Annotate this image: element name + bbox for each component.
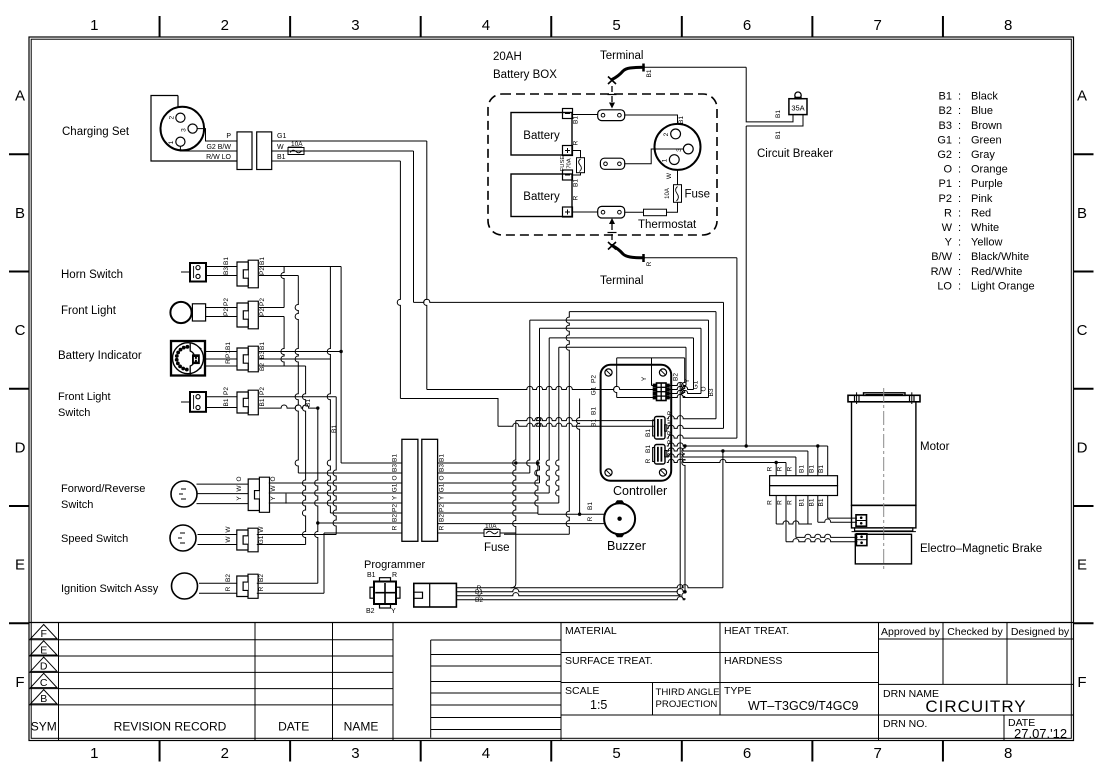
svg-text::: :: [958, 280, 961, 292]
svg-text:A: A: [15, 88, 25, 105]
svg-text:B1: B1: [259, 257, 266, 265]
svg-text:Terminal: Terminal: [600, 50, 643, 62]
svg-text:C: C: [40, 677, 48, 689]
svg-text:B3: B3: [439, 464, 446, 472]
terminal block 2: [600, 158, 624, 169]
svg-text:Battery: Battery: [523, 191, 560, 203]
svg-text::: :: [958, 164, 961, 176]
svg-text:F: F: [40, 628, 46, 640]
svg-text:Battery Indicator: Battery Indicator: [58, 350, 142, 362]
svg-text:10A: 10A: [665, 188, 671, 199]
svg-text:B1: B1: [573, 116, 580, 124]
svg-text:C: C: [1077, 322, 1088, 339]
front light switch connector pair: [248, 390, 258, 415]
svg-text:NAME: NAME: [344, 720, 379, 734]
svg-text:B: B: [15, 205, 25, 222]
svg-text:Checked by: Checked by: [947, 626, 1003, 638]
svg-text:P2: P2: [223, 308, 230, 316]
svg-text:3: 3: [181, 128, 188, 132]
svg-text:R/W: R/W: [931, 266, 953, 278]
svg-text:B1: B1: [667, 449, 674, 457]
svg-text:5: 5: [612, 17, 620, 34]
motor connector: [856, 515, 867, 526]
controller B1 lower wire from charger B1: [400, 399, 498, 427]
svg-text:Battery BOX: Battery BOX: [493, 69, 557, 81]
main connector half A: [402, 439, 418, 541]
svg-text:E: E: [40, 644, 47, 656]
svg-text::: :: [958, 266, 961, 278]
controller bottom connector: [655, 445, 666, 465]
svg-text:P2: P2: [439, 504, 446, 512]
wire plug bottom to fuse 10A: [677, 170, 679, 185]
svg-text:B1: B1: [259, 342, 266, 350]
svg-text:Battery: Battery: [523, 130, 560, 142]
svg-text:P2: P2: [259, 298, 266, 306]
wire block2 to plug pin3: [625, 149, 684, 164]
svg-text:Fuse: Fuse: [685, 189, 711, 201]
svg-text:3: 3: [351, 17, 359, 34]
svg-text:R: R: [777, 466, 784, 471]
svg-text:FUSE: FUSE: [560, 156, 566, 172]
horn P2 wire right: [259, 275, 298, 277]
svg-text:TYPE: TYPE: [724, 685, 751, 697]
battery plug pin 3: [683, 144, 693, 154]
svg-text:Yellow: Yellow: [971, 237, 1002, 249]
right bus verticals down to controller: [685, 347, 687, 385]
controller top connector: [657, 383, 667, 401]
wire B1 from charger: [272, 160, 401, 162]
svg-text:Y: Y: [236, 496, 243, 501]
svg-text:Orange: Orange: [971, 164, 1008, 176]
controller bottom wires to motor strip: [667, 443, 828, 446]
svg-text:R: R: [225, 359, 232, 364]
svg-text:P1: P1: [939, 178, 952, 190]
mid bus H3: [530, 319, 709, 321]
drn no / date block: [879, 714, 1074, 716]
svg-text:2: 2: [221, 745, 229, 762]
svg-text:B1: B1: [591, 407, 598, 415]
svg-text:MATERIAL: MATERIAL: [565, 625, 617, 637]
svg-text::: :: [958, 134, 961, 146]
band risers to mid horizontals: [527, 320, 530, 473]
svg-text:Purple: Purple: [971, 178, 1003, 190]
svg-text:Electro–Magnetic Brake: Electro–Magnetic Brake: [920, 543, 1042, 555]
svg-text:R: R: [225, 586, 232, 591]
ignition switch body: [172, 573, 198, 599]
svg-text:B1: B1: [646, 69, 653, 77]
svg-text:Charging Set: Charging Set: [62, 126, 130, 138]
svg-text:SYM: SYM: [31, 720, 57, 734]
svg-text:PROJECTION: PROJECTION: [656, 699, 718, 710]
svg-text:B1: B1: [775, 131, 782, 139]
svg-text:R: R: [573, 140, 580, 145]
ignition R wire: [257, 592, 324, 594]
svg-text:B2: B2: [392, 514, 399, 522]
svg-text:Circuit Breaker: Circuit Breaker: [757, 148, 833, 160]
strip top stubs: [775, 463, 777, 476]
controller right mid wires R W R: [667, 416, 716, 419]
svg-text:B1: B1: [223, 257, 230, 265]
battery indicator connector pair: [248, 346, 258, 372]
svg-text:SURFACE TREAT.: SURFACE TREAT.: [565, 655, 653, 667]
svg-text:G2: G2: [937, 149, 952, 161]
svg-text:Y: Y: [439, 495, 446, 500]
svg-text:Ignition Switch Assy: Ignition Switch Assy: [61, 583, 159, 595]
material/heat treat block: [560, 623, 562, 741]
svg-text:W: W: [225, 526, 232, 533]
svg-text:Pink: Pink: [971, 193, 993, 205]
svg-text:REVISION RECORD: REVISION RECORD: [114, 720, 227, 734]
svg-text:B1: B1: [808, 498, 815, 506]
controller top connector pin nubs: [653, 384, 656, 387]
svg-text:WT–T3GC9/T4GC9: WT–T3GC9/T4GC9: [748, 699, 858, 713]
svg-text:D: D: [1077, 439, 1088, 456]
charging plug pin 2: [176, 113, 185, 122]
battery plug pin 1: [669, 155, 679, 165]
svg-text:B1: B1: [775, 110, 782, 118]
main connector half B: [422, 439, 438, 541]
charging G1 riser to controller: [424, 141, 427, 390]
svg-text:B1: B1: [939, 91, 952, 103]
svg-text:B1: B1: [277, 154, 286, 161]
svg-text:B1: B1: [367, 572, 376, 579]
svg-text:B2: B2: [673, 373, 680, 381]
wire G1 from charger: [272, 140, 427, 142]
controller B1 upper wire from fuse bus: [516, 417, 655, 420]
title block frame: [29, 622, 1074, 624]
charging plug pin 3: [188, 124, 197, 133]
svg-text:Terminal: Terminal: [600, 275, 643, 287]
svg-text::: :: [958, 178, 961, 190]
motor center line: [883, 388, 885, 570]
controller top connector right row wires: [669, 382, 686, 385]
svg-text:P: P: [226, 133, 231, 140]
forward/reverse wires: [197, 483, 249, 485]
svg-text:R: R: [667, 439, 674, 444]
B3 riser to w6: [327, 267, 330, 514]
svg-text:Blue: Blue: [971, 105, 993, 117]
front light switch body: [190, 392, 206, 412]
svg-text:HARDNESS: HARDNESS: [724, 655, 782, 667]
svg-text:B1: B1: [808, 465, 815, 473]
B2 wire over controller: [617, 357, 685, 359]
buzzer: [604, 503, 635, 534]
svg-text::: :: [958, 237, 961, 249]
svg-text:Motor: Motor: [920, 441, 950, 453]
svg-text:A: A: [1077, 88, 1087, 105]
svg-text:Black: Black: [971, 91, 998, 103]
charging W riser to H1: [413, 151, 415, 302]
battery 2 minus terminal: [563, 170, 573, 180]
svg-text:R: R: [392, 572, 397, 579]
svg-text:D: D: [40, 661, 48, 673]
charging set connector body: [151, 96, 237, 162]
svg-text:Switch: Switch: [61, 499, 93, 511]
svg-text:B1: B1: [645, 445, 652, 453]
svg-text:B3: B3: [939, 120, 952, 132]
controller mid connector: [655, 417, 666, 440]
speed W wire: [257, 534, 336, 536]
terminal block 3: [598, 206, 625, 218]
svg-text:G1: G1: [937, 134, 952, 146]
svg-text:R: R: [392, 525, 399, 530]
motor top cap: [848, 395, 920, 402]
svg-text:O: O: [270, 476, 277, 481]
svg-text:HEAT TREAT.: HEAT TREAT.: [724, 625, 789, 637]
ruler column ticks top: [159, 16, 161, 37]
charging plug pin 1: [176, 137, 185, 146]
svg-text:R: R: [573, 195, 580, 200]
svg-text:DATE: DATE: [278, 720, 309, 734]
svg-text:R: R: [767, 466, 774, 471]
svg-text:B2: B2: [439, 514, 446, 522]
controller Y wire: [651, 358, 653, 386]
battery indicator wires: [205, 351, 237, 353]
svg-text:Green: Green: [971, 134, 1002, 146]
battery indicator body: [171, 341, 205, 376]
svg-text:D: D: [15, 439, 26, 456]
speed switch body: [170, 525, 196, 551]
wire thermostat to block3: [625, 211, 644, 213]
svg-text:B1: B1: [392, 454, 399, 462]
electro-magnetic brake: [855, 534, 911, 564]
svg-text:4: 4: [482, 745, 490, 762]
R bus down to controller mid connector: [736, 258, 738, 438]
svg-text:Black/White: Black/White: [971, 251, 1029, 263]
horn switch wires to connector: [206, 266, 237, 268]
battery plug circle: [655, 124, 701, 170]
svg-text:CIRCUITRY: CIRCUITRY: [925, 697, 1026, 716]
svg-text:B1: B1: [573, 179, 580, 187]
svg-text:B1: B1: [818, 498, 825, 506]
battery 1 minus terminal: [563, 109, 573, 119]
buzzer B1 riser from controller B1 wire: [576, 399, 579, 515]
speed G1 wire: [257, 544, 306, 546]
W to Y jumper: [285, 494, 287, 504]
svg-text:B1: B1: [798, 498, 805, 506]
svg-text:Light Orange: Light Orange: [971, 280, 1035, 292]
approved/checked/designed block: [942, 623, 944, 685]
svg-text:P2: P2: [392, 504, 399, 512]
svg-text:G1: G1: [591, 386, 598, 395]
front light switch P2 wire: [259, 396, 336, 398]
ruler row ticks left: [9, 153, 29, 155]
ignition B2 wire: [257, 582, 318, 584]
main connector left wires: [341, 462, 402, 464]
front light bulb: [170, 302, 191, 323]
svg-text:B1: B1: [587, 502, 594, 510]
front light connector pair: [248, 301, 258, 329]
svg-text:70A: 70A: [567, 158, 573, 168]
battery fuse 10A: [674, 185, 682, 203]
horn B1 riser to w1: [340, 267, 342, 464]
svg-text:Front Light: Front Light: [58, 391, 111, 403]
FLS B1 riser down to ignition B2: [315, 408, 318, 583]
svg-text:6: 6: [743, 17, 751, 34]
svg-text:Front Light: Front Light: [61, 305, 117, 317]
svg-text:P2: P2: [259, 308, 266, 316]
front light wires: [206, 307, 237, 309]
svg-text:B: B: [1077, 205, 1087, 222]
ignition connector pair: [248, 574, 258, 598]
wire fuse 70A to battery2 minus: [573, 173, 581, 175]
wire fuse to thermostat: [667, 202, 678, 212]
svg-text:O: O: [236, 476, 243, 481]
svg-text:R: R: [646, 261, 653, 266]
svg-text:7: 7: [873, 745, 881, 762]
svg-text:Designed by: Designed by: [1011, 626, 1070, 638]
controller P2 row4 wire: [614, 358, 617, 398]
battery 2: [511, 174, 572, 217]
svg-text::: :: [958, 222, 961, 234]
horn switch body: [190, 263, 206, 282]
svg-text:Buzzer: Buzzer: [607, 539, 646, 553]
svg-text:THIRD ANGLE: THIRD ANGLE: [656, 687, 720, 698]
svg-text::: :: [958, 207, 961, 219]
battery 1: [511, 113, 572, 156]
svg-text:1: 1: [662, 158, 669, 162]
svg-text:P2: P2: [591, 375, 598, 383]
svg-text:R: R: [786, 500, 793, 505]
svg-text:8: 8: [1004, 745, 1012, 762]
svg-text:B2: B2: [225, 574, 232, 582]
svg-text:7: 7: [873, 17, 881, 34]
svg-text:W: W: [942, 222, 953, 234]
mid bus H1: [414, 299, 724, 302]
svg-text:R: R: [587, 516, 594, 521]
fuse 10A on W wire: [288, 148, 304, 155]
svg-text:C: C: [15, 322, 26, 339]
svg-text:Y: Y: [641, 376, 648, 381]
svg-text:G2 B/W: G2 B/W: [206, 144, 231, 151]
svg-text:20AH: 20AH: [493, 51, 522, 63]
svg-text:R: R: [667, 410, 674, 415]
svg-text:Y: Y: [270, 496, 277, 501]
svg-text:W: W: [258, 526, 265, 533]
svg-text:R/W LO: R/W LO: [206, 154, 231, 161]
svg-text::: :: [958, 105, 961, 117]
wire battery2 plus to terminal block 3: [573, 211, 598, 213]
svg-text:W: W: [270, 485, 277, 492]
revision sym triangles: [31, 625, 58, 639]
fuse bus riser down to programmer R: [511, 421, 516, 588]
svg-text:P2: P2: [223, 298, 230, 306]
svg-text:6: 6: [743, 745, 751, 762]
svg-text::: :: [958, 149, 961, 161]
charging set plug circle: [161, 107, 205, 151]
svg-text:B/W: B/W: [931, 251, 952, 263]
thermostat: [644, 209, 667, 216]
svg-text:B3: B3: [392, 464, 399, 472]
svg-text:B1: B1: [439, 454, 446, 462]
svg-text:Y: Y: [391, 608, 396, 615]
left bus riser a: [281, 267, 284, 308]
svg-text:W: W: [277, 144, 284, 151]
svg-text:G1: G1: [439, 483, 446, 492]
svg-text:O: O: [701, 386, 708, 391]
svg-text:P1: P1: [225, 350, 232, 358]
mid bus H5: [549, 337, 693, 339]
speed switch wires: [198, 534, 237, 536]
svg-text:R: R: [645, 458, 652, 463]
battery box dashed border: [488, 94, 717, 235]
battery indicator B3 wire: [259, 358, 330, 360]
svg-text:1: 1: [168, 140, 175, 144]
wire terminal top to circuit breaker: [645, 66, 746, 68]
svg-text:5: 5: [612, 745, 620, 762]
ruler column ticks bottom: [159, 741, 161, 762]
svg-text:Speed Switch: Speed Switch: [61, 533, 128, 545]
charging connector half B: [257, 132, 272, 170]
svg-text:F: F: [1077, 674, 1086, 691]
terminal block 1: [598, 110, 625, 121]
svg-text:DRN NO.: DRN NO.: [883, 718, 927, 730]
svg-text:4: 4: [482, 17, 490, 34]
svg-text:B1: B1: [818, 465, 825, 473]
FLS P2 riser to speed switch W: [333, 397, 336, 535]
svg-text:LO: LO: [937, 280, 952, 292]
svg-text:R: R: [944, 207, 952, 219]
wire terminal bottom R to controller area: [645, 257, 737, 259]
programmer risers: [722, 451, 724, 588]
svg-text:W: W: [225, 536, 232, 543]
main connector right wires: [438, 462, 538, 464]
wire fuse right to bus: [500, 532, 516, 534]
battery 1 plus terminal: [563, 146, 573, 156]
wire into breaker: [746, 67, 793, 122]
B1 bus breaker down to motor wires: [745, 126, 747, 446]
svg-text:B1: B1: [331, 425, 338, 433]
svg-text:W: W: [667, 419, 674, 426]
svg-text:E: E: [15, 557, 25, 574]
buzzer B1 riser from w1: [535, 463, 538, 514]
svg-text:B1: B1: [223, 398, 230, 406]
dashed link terminal to battery box: [611, 86, 613, 103]
wire battery1 minus to terminal block 1: [573, 114, 598, 116]
svg-text:Red: Red: [971, 207, 991, 219]
mid bus H4: [540, 327, 702, 329]
svg-text:P2: P2: [939, 193, 952, 205]
svg-text:2: 2: [663, 132, 670, 136]
dashed link battery box to terminal bottom: [611, 224, 613, 241]
svg-text:B1: B1: [259, 398, 266, 406]
svg-text:O: O: [943, 164, 952, 176]
svg-text:B3: B3: [223, 267, 230, 275]
svg-text:8: 8: [1004, 17, 1012, 34]
svg-text:R: R: [439, 525, 446, 530]
svg-text:G1: G1: [258, 535, 265, 544]
svg-text:27.07.'12: 27.07.'12: [1014, 726, 1067, 741]
svg-text:R: R: [258, 586, 265, 591]
svg-text:Controller: Controller: [613, 484, 667, 498]
wire block1 to plug top: [625, 115, 678, 124]
svg-text:P2: P2: [259, 267, 266, 275]
terminal bottom clip: [612, 246, 644, 258]
charging connector half A: [237, 132, 252, 170]
svg-text:B2: B2: [258, 574, 265, 582]
svg-text::: :: [958, 251, 961, 263]
fuse 10A main: [484, 530, 500, 537]
svg-text:Programmer: Programmer: [364, 559, 425, 571]
controller box: [601, 365, 672, 481]
svg-text:R: R: [786, 466, 793, 471]
svg-text:B2: B2: [259, 363, 266, 371]
B2 riser down to speed G1: [302, 366, 305, 545]
svg-text:Switch: Switch: [58, 407, 90, 419]
svg-text:G1: G1: [693, 380, 700, 389]
svg-text:E: E: [1077, 557, 1087, 574]
forward/reverse switch body: [171, 481, 197, 507]
